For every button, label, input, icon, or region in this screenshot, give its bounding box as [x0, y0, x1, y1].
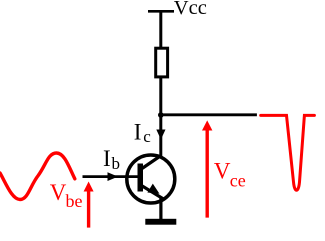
svg-text:V: V — [214, 159, 231, 184]
svg-text:c: c — [143, 127, 151, 146]
svg-text:I: I — [103, 146, 111, 171]
svg-text:b: b — [112, 154, 121, 173]
svg-text:V: V — [50, 180, 67, 205]
svg-text:I: I — [134, 120, 142, 145]
svg-text:Vcc: Vcc — [174, 0, 207, 19]
svg-text:be: be — [66, 191, 83, 211]
svg-text:ce: ce — [230, 170, 246, 190]
